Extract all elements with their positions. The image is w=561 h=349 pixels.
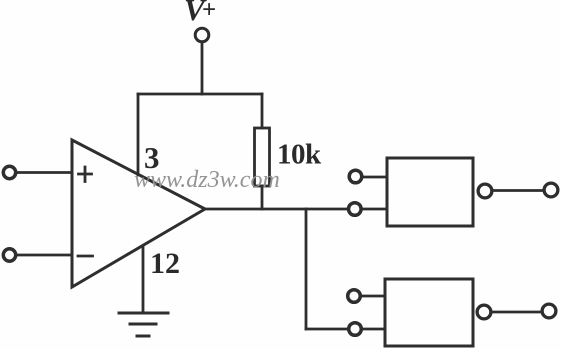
wire U2 output [493, 189, 543, 192]
wire U3 input B [362, 328, 385, 331]
terminal U3 output end [542, 304, 556, 318]
op-amp plus input symbol [79, 167, 92, 182]
wire pin 3 vertical [137, 94, 140, 175]
terminal V+ [195, 28, 209, 42]
wire resistor top [261, 94, 264, 128]
terminal U2 input B [349, 203, 362, 216]
terminal noninverting input [3, 166, 15, 178]
gate U2 box [387, 158, 473, 226]
op-amp U1 triangle [72, 140, 205, 287]
terminal U3 output [477, 305, 491, 319]
terminal U3 input B [349, 323, 362, 336]
ground [119, 313, 168, 336]
terminal U2 output [478, 184, 492, 198]
terminal U3 input A [348, 290, 361, 303]
wire U2 input B [362, 208, 387, 211]
wire branch vertical [305, 209, 308, 329]
op-amp minus input symbol [78, 255, 93, 258]
wire branch to lower box [306, 328, 347, 331]
svg-text:12: 12 [150, 247, 180, 280]
svg-text:www.dz3w.com: www.dz3w.com [134, 167, 280, 193]
node V+ label [184, 0, 216, 27]
terminal U2 output end [544, 183, 558, 197]
wire U2 input A [362, 176, 387, 179]
wire inverting input [17, 254, 72, 257]
wire pin 12 vertical [142, 246, 145, 312]
resistor R1 body [255, 128, 270, 186]
wire top rail [138, 93, 262, 96]
wire V+ vertical [201, 43, 204, 94]
wire U3 output [492, 311, 542, 314]
wire noninverting input [17, 171, 72, 174]
terminal U2 input A [349, 170, 362, 183]
wire resistor bottom [261, 186, 264, 209]
wire U3 input A [361, 295, 385, 298]
terminal inverting input [3, 249, 15, 261]
svg-text:+: + [202, 0, 216, 24]
svg-text:10k: 10k [277, 139, 322, 171]
gate U3 box [385, 279, 473, 346]
wire op-amp output [205, 208, 348, 211]
